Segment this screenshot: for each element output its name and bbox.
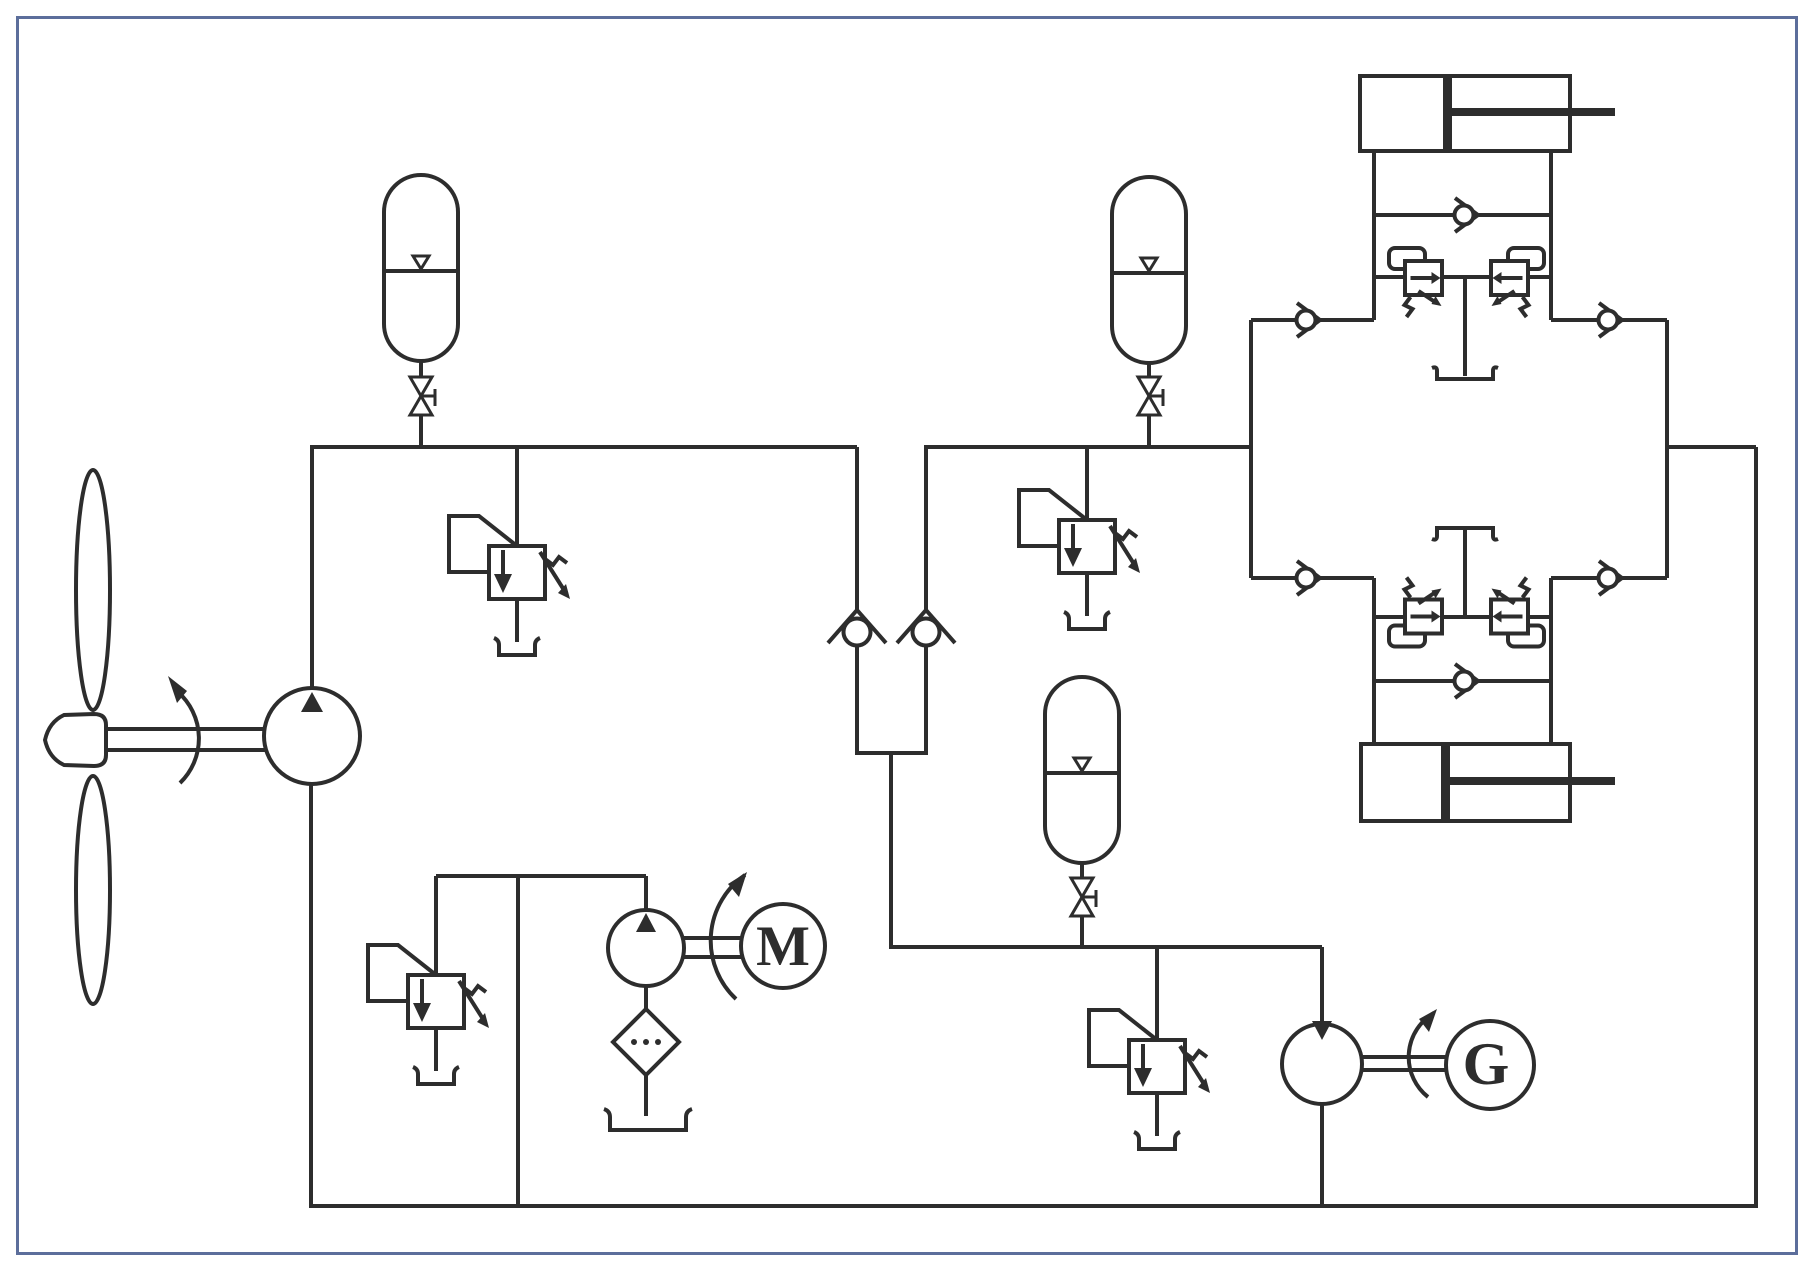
wind turbine rotor blade (bottom)	[76, 776, 110, 1004]
wire: relief valve RV1 branch from bus	[515, 447, 519, 546]
accumulator A2	[1112, 177, 1186, 379]
wire: accumulator A1 drop to bus	[419, 414, 423, 447]
generator shaft	[1362, 1055, 1447, 1059]
shutoff valve SV2	[1138, 377, 1163, 415]
check valve CV7 (bottom crossline)	[1455, 664, 1479, 698]
main hydraulic pump P1	[264, 688, 360, 784]
hydraulic motor PG (generator drive)	[1282, 1024, 1362, 1104]
rotor rotation arrow	[178, 692, 199, 783]
wire: check-valve header	[855, 751, 928, 755]
wire: relief valve RV2 branch	[1085, 447, 1089, 520]
check valve CV5 (top-right exit)	[1599, 303, 1623, 337]
check valve CV8 (bottom-right exit)	[1599, 561, 1623, 595]
wire: pitch network right rail	[1665, 320, 1669, 578]
counterbalance valve CB3 (bottom-left)	[1389, 578, 1442, 647]
wire: relief valve RV3 branch	[1155, 947, 1159, 1040]
shutoff valve SV1	[410, 377, 435, 415]
wire: filter to tank	[644, 1073, 648, 1116]
wire: top bypass crossline	[1374, 213, 1551, 217]
wire: left check-valve branch down from left bus	[855, 447, 859, 613]
motor rotation arrow	[711, 875, 745, 999]
accumulator A3	[1045, 677, 1119, 879]
wire: lower bus drop to pump PG	[1320, 947, 1324, 1026]
electric motor M	[741, 904, 825, 988]
wire: bottom counterbalance tank drop	[1463, 530, 1467, 617]
suction tank T1	[604, 1109, 692, 1130]
wire: left check-valve outlet down	[855, 646, 859, 753]
wire: relief valve RV4 branch	[434, 876, 438, 975]
wire: top counterbalance line	[1374, 275, 1551, 279]
tank T2 (top counterbalance drain)	[1432, 367, 1498, 379]
wire: accumulator A3 drop to lower bus	[1080, 915, 1084, 947]
wire: top counterbalance tank drop	[1463, 277, 1467, 376]
svg-text:G: G	[1463, 1031, 1510, 1097]
wire: pitch network left rail	[1249, 320, 1253, 578]
wire: bottom-right exit line	[1551, 576, 1667, 580]
wire: right check-valve outlet down	[924, 646, 928, 753]
wire: header drop to lower-middle bus	[891, 753, 1322, 947]
rotor hub	[45, 714, 106, 766]
tank T3 (bottom counterbalance drain)	[1432, 528, 1498, 540]
wire: bottom-left entry line	[1251, 576, 1374, 580]
filter F1	[613, 1009, 679, 1075]
wire: bottom counterbalance line	[1374, 615, 1551, 619]
accumulator A1	[384, 175, 458, 377]
rotor shaft	[106, 727, 266, 731]
boost pump P2	[608, 910, 684, 986]
wire: bottom return bus	[309, 1204, 1758, 1208]
svg-text:M: M	[756, 915, 810, 978]
hydraulic cylinder C2 (bottom)	[1361, 744, 1570, 821]
wire: top-right exit line	[1551, 318, 1667, 322]
relief valve RV2	[1019, 490, 1140, 629]
relief valve RV4	[368, 945, 489, 1084]
check valve CV1 (left, vertical)	[828, 610, 886, 646]
wire: top-left entry line	[1251, 318, 1374, 322]
counterbalance valve CB2 (top-right)	[1491, 248, 1544, 317]
relief valve RV1	[449, 516, 570, 655]
wire: cylinder C2 right port	[1549, 578, 1553, 746]
check valve CV4 (top crossline)	[1455, 198, 1479, 232]
shutoff valve SV3	[1071, 878, 1096, 916]
wire: top-right bus	[926, 447, 1251, 613]
wire: accumulator A2 drop to bus	[1147, 414, 1151, 447]
wire: cylinder C2 left port	[1372, 578, 1376, 746]
wire: boost header to bottom bus	[516, 876, 520, 1206]
wire: far-right connector	[1667, 445, 1756, 449]
counterbalance valve CB1 (top-left)	[1389, 248, 1442, 317]
wind turbine rotor blade (top)	[76, 470, 110, 710]
generator G	[1446, 1021, 1534, 1109]
relief valve RV3	[1089, 1010, 1210, 1149]
wire: cylinder C1 right port	[1549, 150, 1553, 320]
counterbalance valve CB4 (bottom-right)	[1491, 578, 1544, 647]
boost pump shaft	[684, 936, 742, 940]
wire: main pump suction line	[309, 784, 313, 1206]
check valve CV6 (bottom-left entry)	[1297, 561, 1321, 595]
wire: boost pump to filter	[644, 984, 648, 1011]
check valve CV2 (right, vertical)	[897, 610, 955, 646]
wire: far-right return rail	[1754, 447, 1758, 1208]
wire: boost pump drop	[644, 876, 648, 912]
check valve CV3 (top-left entry)	[1297, 303, 1321, 337]
wire: pump outlet to top-left bus	[312, 447, 857, 688]
wire: cylinder C1 left port	[1372, 150, 1376, 320]
hydraulic cylinder C1 (top)	[1360, 76, 1570, 151]
wire: pump PG outlet to bottom bus	[1320, 1102, 1324, 1206]
generator rotation arrow	[1409, 1013, 1434, 1097]
wire: boost header	[436, 874, 646, 878]
wire: bottom bypass crossline	[1374, 679, 1551, 683]
